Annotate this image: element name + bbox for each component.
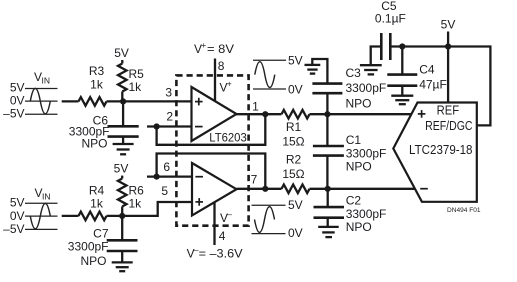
svg-text:15Ω: 15Ω — [282, 167, 304, 181]
wire feedback U1a (pin1 to pin2) — [157, 114, 266, 145]
wire pin 4 V- — [213, 203, 215, 246]
capacitor C4 — [401, 47, 403, 75]
svg-text:6: 6 — [163, 160, 170, 174]
ADC U2 LTC2379-18 — [393, 103, 477, 202]
svg-text:5V: 5V — [114, 46, 129, 60]
svg-text:7: 7 — [251, 172, 258, 186]
wire pin 8 V+ — [214, 59, 216, 102]
svg-text:5V: 5V — [288, 198, 303, 212]
op-amp U1 LT6203 package boundary (dashed) — [176, 75, 248, 225]
svg-text:DN494 F01: DN494 F01 — [447, 207, 481, 214]
V+ = 8V supply label — [194, 40, 234, 56]
svg-text:3300pF: 3300pF — [346, 207, 387, 221]
svg-text:C4: C4 — [419, 63, 435, 77]
svg-text:15Ω: 15Ω — [282, 135, 304, 149]
svg-text:3300pF: 3300pF — [346, 146, 387, 160]
wire top input — [62, 100, 79, 102]
svg-text:R5: R5 — [129, 67, 145, 81]
V+ pin name — [220, 78, 232, 94]
node R1/C3/C1 junction — [324, 111, 330, 117]
op-amp U1b triangle — [192, 163, 237, 216]
V- pin name — [220, 209, 232, 225]
node pin7 output junction — [262, 186, 268, 192]
svg-text:3300pF: 3300pF — [68, 240, 109, 254]
svg-text:= 8V: = 8V — [207, 42, 234, 56]
svg-text:1: 1 — [252, 99, 259, 113]
svg-text:0V: 0V — [288, 226, 303, 240]
svg-text:0V: 0V — [288, 82, 303, 96]
svg-text:= –3.6V: = –3.6V — [199, 247, 243, 261]
svg-text:5V: 5V — [441, 17, 456, 31]
svg-text:NPO: NPO — [346, 220, 372, 234]
node pin1 output junction — [262, 111, 268, 117]
wire pin 2 — [147, 125, 192, 127]
svg-text:NPO: NPO — [81, 137, 107, 151]
svg-text:3: 3 — [165, 85, 172, 99]
svg-text:5V: 5V — [10, 196, 25, 210]
resistor R2 — [282, 185, 310, 194]
input waveform annotation VIN bottom — [25, 203, 58, 229]
wire pin 6 — [147, 175, 192, 177]
svg-text:NPO: NPO — [80, 254, 106, 268]
svg-text:R2: R2 — [286, 153, 302, 167]
svg-text:REF: REF — [437, 104, 460, 118]
svg-text:5V: 5V — [114, 162, 129, 176]
ground at C3 — [305, 65, 321, 74]
node bottom input junction — [119, 213, 125, 219]
node R2/C1/C2 junction — [325, 186, 331, 192]
node C4 tap — [399, 43, 405, 49]
ground at C5 — [360, 65, 382, 74]
resistor R3 — [79, 97, 107, 106]
capacitor C5 — [375, 0, 406, 25]
svg-text:5V: 5V — [10, 80, 25, 94]
svg-text:NPO: NPO — [346, 96, 372, 110]
op-amp U1a triangle — [192, 87, 237, 141]
svg-text:R4: R4 — [89, 183, 105, 197]
node pin6 feedback junction — [154, 174, 160, 180]
node 5V/REF junction — [445, 43, 451, 49]
ground under C6 — [113, 144, 134, 154]
svg-text:1k: 1k — [129, 80, 143, 94]
wire 5V label to REF pin — [447, 32, 449, 103]
wire 5V rail to REF/DGC — [390, 47, 490, 126]
output waveform annotation top (5V/0V) — [253, 60, 286, 89]
svg-text:+: + — [201, 40, 206, 50]
svg-text:–5V: –5V — [3, 222, 24, 236]
capacitor C1 — [326, 114, 328, 146]
svg-text:LTC2379-18: LTC2379-18 — [409, 142, 473, 157]
svg-text:LT6203: LT6203 — [209, 131, 247, 145]
svg-text:1k: 1k — [90, 77, 104, 91]
wire R2 to ADC — [310, 188, 418, 190]
svg-text:0V: 0V — [10, 94, 25, 108]
node top input junction — [120, 98, 126, 104]
svg-text:C1: C1 — [346, 133, 362, 147]
svg-text:47µF: 47µF — [419, 78, 447, 92]
resistor R4 — [79, 212, 107, 221]
svg-text:–: – — [227, 209, 232, 219]
V- = -3.6V supply label — [187, 245, 243, 261]
wire feedback U1b (pin7 to pin6) — [157, 154, 266, 189]
svg-text:4: 4 — [219, 229, 226, 243]
svg-text:IN: IN — [42, 76, 51, 86]
svg-text:R3: R3 — [89, 64, 105, 78]
wire bottom input — [62, 215, 79, 217]
capacitor C3 — [312, 59, 327, 84]
svg-text:5V: 5V — [288, 54, 303, 68]
svg-text:REF/DGC: REF/DGC — [425, 119, 472, 133]
capacitor C2 — [327, 189, 329, 207]
capacitor C6 — [122, 101, 124, 126]
wire pin 7 output — [237, 188, 282, 190]
ground under C4 — [391, 96, 413, 105]
svg-text:–5V: –5V — [3, 107, 24, 121]
svg-text:8: 8 — [218, 59, 225, 73]
svg-text:3300pF: 3300pF — [346, 81, 387, 95]
svg-text:R6: R6 — [129, 183, 145, 197]
svg-text:0V: 0V — [10, 209, 25, 223]
resistor R1 — [282, 110, 310, 119]
svg-text:2: 2 — [166, 109, 173, 123]
svg-text:+: + — [227, 78, 232, 88]
node pin2 feedback junction — [154, 123, 160, 129]
ground under C7 — [112, 262, 133, 271]
capacitor C7 — [121, 216, 123, 240]
svg-text:NPO: NPO — [346, 159, 372, 173]
wire R1 to ADC — [310, 113, 415, 115]
svg-text:IN: IN — [42, 192, 51, 202]
ground under C2 — [318, 227, 339, 237]
svg-text:1k: 1k — [90, 197, 104, 211]
svg-text:C7: C7 — [93, 226, 109, 240]
svg-text:1k: 1k — [129, 197, 143, 211]
wire pin 1 output — [237, 113, 282, 115]
svg-text:5: 5 — [161, 184, 168, 198]
output waveform annotation bottom (5V/0V) — [252, 205, 286, 233]
svg-text:C3: C3 — [346, 66, 362, 80]
svg-text:C2: C2 — [346, 193, 362, 207]
input waveform annotation VIN top — [25, 88, 58, 114]
svg-text:R1: R1 — [286, 120, 302, 134]
svg-text:0.1µF: 0.1µF — [375, 11, 406, 25]
